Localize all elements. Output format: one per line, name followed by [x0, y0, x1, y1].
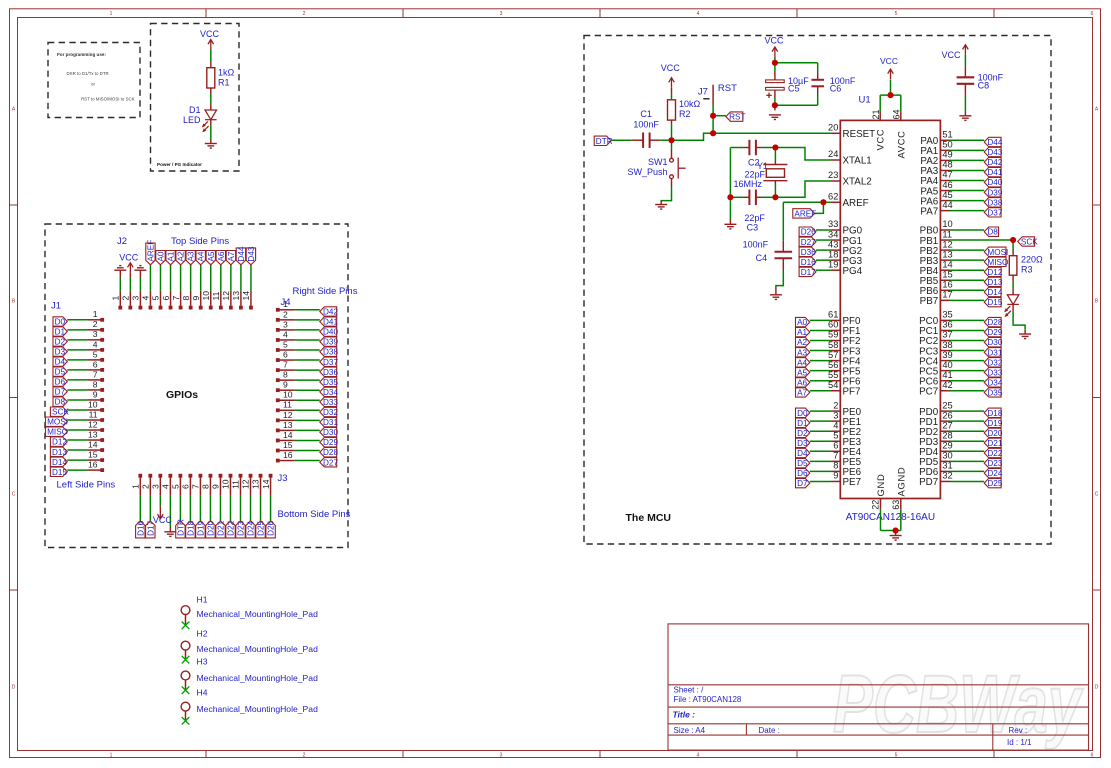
label D3	[53, 347, 67, 356]
svg-text:D39: D39	[323, 338, 338, 347]
wire	[810, 370, 831, 372]
J2 pin 1	[118, 306, 122, 310]
label D4	[796, 448, 810, 457]
J3 pin 4 wire	[169, 496, 171, 527]
svg-text:D4: D4	[797, 449, 808, 458]
VCC R2	[669, 78, 675, 88]
J1 pin 12	[88, 429, 101, 431]
wire	[775, 62, 818, 64]
MCU dashed box	[584, 36, 1051, 545]
svg-text:D26: D26	[267, 520, 276, 535]
svg-text:D5: D5	[797, 459, 808, 468]
U1 pin 39 PC4	[940, 360, 950, 362]
J2 pin 1 wire	[119, 278, 121, 291]
wire	[810, 460, 831, 462]
svg-text:D: D	[12, 685, 16, 691]
svg-text:C5: C5	[788, 84, 800, 94]
J3 pin 7	[199, 474, 203, 478]
label D41	[320, 317, 337, 326]
label D22	[226, 521, 235, 538]
svg-text:D33: D33	[323, 398, 338, 407]
svg-text:D42: D42	[987, 158, 1002, 167]
label D13	[984, 277, 1001, 286]
J1 pin 15 wire	[67, 459, 88, 461]
wire	[895, 531, 897, 536]
svg-text:D32: D32	[987, 358, 1002, 367]
J1 pin 8 wire	[67, 389, 88, 391]
U1 pin 42 PC7	[940, 390, 950, 392]
U1 pin 54 PF7	[831, 390, 841, 392]
svg-text:A1: A1	[797, 328, 807, 337]
label D4	[53, 357, 67, 366]
label D31	[984, 348, 1001, 357]
J4 pin 5	[276, 348, 280, 352]
svg-text:H2: H2	[197, 628, 208, 638]
U1 pin 57 PF4	[831, 360, 841, 362]
label A5	[206, 251, 215, 265]
wire	[880, 510, 882, 531]
svg-text:D36: D36	[801, 248, 816, 257]
U1 pin 2 PE0	[831, 410, 841, 412]
label D18	[186, 521, 195, 538]
resistor R3	[1009, 256, 1017, 276]
J3 pin 14 wire	[270, 496, 272, 521]
J1 pin 8	[88, 389, 101, 391]
wire	[810, 420, 831, 422]
label A0	[156, 251, 165, 265]
svg-text:A6: A6	[217, 251, 226, 261]
J4 pin 14	[276, 439, 280, 443]
J2 pin 14 wire	[250, 265, 252, 291]
label SCK	[1018, 237, 1035, 246]
power indicator box	[151, 24, 240, 172]
label D30	[984, 338, 1001, 347]
wire	[1012, 275, 1014, 281]
wire	[649, 139, 660, 141]
svg-text:D2: D2	[55, 338, 66, 347]
svg-text:7: 7	[93, 369, 98, 379]
J4 pin 8 wire	[295, 379, 320, 381]
svg-text:SW_Push: SW_Push	[627, 167, 667, 177]
svg-text:AREF: AREF	[843, 198, 869, 209]
svg-text:C8: C8	[978, 81, 990, 91]
svg-text:D3: D3	[797, 439, 808, 448]
U1 pin 62 AREF	[831, 201, 841, 203]
J2 pin 7	[179, 306, 183, 310]
svg-text:10: 10	[88, 399, 98, 409]
svg-text:D27: D27	[801, 238, 816, 247]
svg-text:14: 14	[88, 439, 98, 449]
svg-text:7: 7	[283, 360, 288, 370]
J1 pin 3	[88, 339, 101, 341]
svg-text:D25: D25	[987, 479, 1002, 488]
svg-text:8: 8	[283, 370, 288, 380]
label D19	[196, 521, 205, 538]
J4 pin 4	[276, 338, 280, 342]
J1 pin 12 wire	[67, 429, 88, 431]
svg-text:Mechanical_MountingHole_Pad: Mechanical_MountingHole_Pad	[197, 673, 319, 683]
svg-text:A5: A5	[207, 251, 216, 261]
wire	[950, 229, 984, 231]
svg-text:8: 8	[201, 484, 211, 489]
wire	[950, 380, 984, 382]
ground	[655, 205, 667, 210]
GPIO dashed box	[45, 224, 348, 548]
J2 pin 13	[239, 306, 243, 310]
svg-text:23: 23	[828, 170, 838, 180]
U1 pin 16 PB6	[940, 289, 950, 291]
U1 pin 60 PF1	[831, 329, 841, 331]
svg-text:6: 6	[181, 484, 191, 489]
J4 pin 15	[276, 449, 280, 453]
svg-text:24: 24	[828, 149, 838, 159]
label A0	[796, 317, 810, 326]
LED D2	[1004, 295, 1019, 317]
svg-text:4: 4	[161, 484, 171, 489]
label MOSI	[984, 247, 1006, 256]
U1 pin 24 XTAL1	[831, 159, 841, 161]
label MISO	[46, 427, 68, 436]
wire	[950, 239, 1013, 241]
label D5	[53, 367, 67, 376]
wire	[950, 430, 984, 432]
svg-text:D12: D12	[987, 268, 1002, 277]
svg-text:5: 5	[171, 484, 181, 489]
label SCK	[50, 407, 67, 416]
wire	[729, 148, 731, 221]
svg-text:A4: A4	[797, 358, 807, 367]
svg-text:D7: D7	[797, 479, 808, 488]
svg-text:D7: D7	[55, 388, 66, 397]
J4 pin 9	[276, 388, 280, 392]
J4 pin 12 wire	[295, 419, 320, 421]
svg-text:2: 2	[93, 319, 98, 329]
svg-text:D32: D32	[323, 408, 338, 417]
junction	[772, 194, 778, 200]
svg-text:MISO: MISO	[47, 428, 68, 437]
U1 pin 33 PG0	[831, 229, 841, 231]
svg-text:D26: D26	[801, 228, 816, 237]
label D32	[320, 407, 337, 416]
svg-text:D8: D8	[987, 228, 998, 237]
svg-text:PF7: PF7	[843, 386, 861, 397]
svg-text:For programming use:: For programming use:	[57, 52, 106, 57]
U1 pin 56 PF5	[831, 370, 841, 372]
svg-text:GND: GND	[875, 474, 886, 497]
wire	[1012, 304, 1014, 311]
wire	[611, 139, 631, 141]
svg-text:J1: J1	[51, 301, 61, 312]
wire	[729, 220, 731, 224]
J1 pin 9 wire	[67, 399, 88, 401]
svg-text:35: 35	[942, 310, 952, 320]
svg-text:16MHz: 16MHz	[733, 179, 762, 189]
J2 pin 11	[219, 306, 223, 310]
label D25	[256, 521, 265, 538]
svg-text:13: 13	[231, 291, 241, 301]
label A6	[796, 378, 810, 387]
svg-text:4: 4	[697, 752, 700, 758]
label D18	[984, 408, 1001, 417]
svg-text:6: 6	[1091, 11, 1094, 17]
svg-text:XTAL2: XTAL2	[843, 177, 872, 188]
svg-text:MOSI: MOSI	[47, 418, 68, 427]
U1 pin 23 XTAL2	[831, 180, 841, 182]
J4 pin 1	[276, 308, 280, 312]
label D7	[53, 387, 67, 396]
U1 pin 6 PE4	[831, 450, 841, 452]
svg-text:D8: D8	[55, 398, 66, 407]
svg-text:11: 11	[283, 400, 292, 410]
wire	[810, 480, 831, 482]
wire	[950, 410, 984, 412]
J2 pin 8 wire	[190, 265, 192, 291]
wire	[950, 190, 984, 192]
svg-text:10kΩ: 10kΩ	[679, 99, 701, 109]
wire	[950, 159, 984, 161]
svg-text:J3: J3	[278, 473, 288, 484]
J3 pin 13	[259, 474, 263, 478]
label D26	[266, 521, 275, 538]
label D20	[984, 428, 1001, 437]
svg-text:D1: D1	[797, 419, 808, 428]
svg-text:8: 8	[93, 379, 98, 389]
wire	[950, 180, 984, 182]
label MOSI	[46, 417, 68, 426]
U1 pin 3 PE1	[831, 420, 841, 422]
J4 pin 8	[276, 378, 280, 382]
capacitor C4	[775, 252, 793, 258]
U1 pin 5 PE3	[831, 440, 841, 442]
svg-text:10: 10	[283, 390, 293, 400]
svg-text:7: 7	[833, 451, 838, 461]
svg-text:VCC: VCC	[661, 63, 681, 73]
label D39	[320, 337, 337, 346]
svg-text:9: 9	[283, 380, 288, 390]
label D2	[796, 428, 810, 437]
svg-text:D22: D22	[226, 520, 235, 535]
svg-text:D20: D20	[987, 429, 1002, 438]
svg-text:D21: D21	[987, 439, 1002, 448]
svg-text:A7: A7	[227, 251, 236, 261]
svg-text:9: 9	[211, 484, 221, 489]
J4 pin 12	[276, 418, 280, 422]
wire	[816, 269, 831, 271]
svg-text:7: 7	[191, 484, 201, 489]
J4 pin 13 wire	[295, 429, 320, 431]
U1 pin 31 PD6	[940, 470, 950, 472]
U1 pin 38 PC3	[940, 350, 950, 352]
svg-text:VCC: VCC	[941, 50, 961, 60]
svg-text:Rev :: Rev :	[1009, 726, 1028, 735]
svg-text:Mechanical_MountingHole_Pad: Mechanical_MountingHole_Pad	[197, 644, 319, 654]
svg-text:D39: D39	[987, 188, 1002, 197]
label D28	[984, 317, 1001, 326]
J4 pin 10 wire	[295, 399, 320, 401]
J3 pin 9 wire	[219, 496, 221, 521]
label D27	[799, 237, 816, 246]
U1 pin 27 PD2	[940, 430, 950, 432]
svg-text:A0: A0	[157, 251, 166, 261]
wire	[730, 196, 744, 198]
label AREF	[793, 209, 815, 218]
svg-text:1: 1	[111, 296, 121, 301]
J4 pin 4 wire	[295, 339, 320, 341]
label D15	[984, 297, 1001, 306]
J4 pin 3 wire	[295, 329, 320, 331]
crystal Y1	[763, 165, 787, 181]
wire	[810, 390, 831, 392]
svg-text:14: 14	[241, 291, 251, 301]
svg-text:9: 9	[93, 389, 98, 399]
U1 pin 58 PF3	[831, 350, 841, 352]
J1 pin 14 wire	[67, 449, 88, 451]
svg-text:A6: A6	[797, 378, 807, 387]
J1 pin 13	[88, 439, 101, 441]
svg-text:4: 4	[833, 420, 838, 430]
svg-text:Size : A4: Size : A4	[674, 726, 706, 735]
U1 pin 51 PA0	[940, 139, 950, 141]
wire	[950, 329, 984, 331]
svg-text:D31: D31	[323, 418, 338, 427]
svg-text:D40: D40	[323, 328, 338, 337]
svg-text:4: 4	[283, 329, 288, 339]
svg-text:6: 6	[1091, 752, 1094, 758]
svg-text:12: 12	[283, 410, 293, 420]
svg-text:10: 10	[942, 219, 952, 229]
J2 pin 2 wire	[129, 278, 131, 291]
svg-text:AT90CAN128-16AU: AT90CAN128-16AU	[846, 512, 935, 523]
label A3	[796, 348, 810, 357]
svg-text:2: 2	[303, 752, 306, 758]
label DTR	[594, 136, 611, 145]
svg-text:D23: D23	[987, 459, 1002, 468]
wire	[756, 196, 761, 198]
wire	[713, 115, 726, 117]
J3 pin 10	[229, 474, 233, 478]
J4 pin 10	[276, 398, 280, 402]
wire	[817, 86, 819, 94]
J3 pin 1 wire	[139, 496, 141, 521]
U1 pin 44 PA7	[940, 210, 950, 212]
svg-text:D29: D29	[987, 328, 1002, 337]
label D36	[799, 247, 816, 256]
wire	[810, 350, 831, 352]
label D19	[984, 418, 1001, 427]
svg-text:D33: D33	[987, 368, 1002, 377]
svg-text:220Ω: 220Ω	[1021, 255, 1043, 265]
svg-text:8: 8	[833, 461, 838, 471]
svg-text:D3: D3	[55, 348, 66, 357]
wire	[950, 370, 984, 372]
wire	[816, 229, 831, 231]
svg-text:A2: A2	[177, 251, 186, 261]
svg-text:3: 3	[283, 319, 288, 329]
svg-text:MISO: MISO	[987, 258, 1008, 267]
label A4	[196, 251, 205, 265]
svg-text:D4: D4	[55, 358, 66, 367]
label D28	[320, 448, 337, 457]
J1 pin 4	[88, 349, 101, 351]
wire	[950, 210, 984, 212]
svg-text:9: 9	[833, 471, 838, 481]
ground	[205, 144, 217, 149]
U1 pin 25 PD0	[940, 410, 950, 412]
J4 pin 14 wire	[295, 439, 320, 441]
capacitor C3	[749, 190, 756, 206]
svg-text:LED: LED	[183, 115, 201, 125]
svg-text:D44: D44	[987, 138, 1002, 147]
ground	[890, 536, 902, 541]
label D42	[984, 157, 1001, 166]
wire	[810, 360, 831, 362]
label D24	[246, 521, 255, 538]
svg-text:16: 16	[88, 460, 98, 470]
ground	[770, 295, 782, 300]
svg-text:Power / PG Indicator: Power / PG Indicator	[157, 162, 202, 167]
label A3	[186, 251, 195, 265]
J2 pin 2	[128, 306, 132, 310]
J2 pin 5	[159, 306, 163, 310]
label D29	[320, 438, 337, 447]
J2 pin 13 wire	[240, 265, 242, 291]
wire RESET	[713, 132, 831, 134]
J3 pin 7 wire	[199, 496, 201, 521]
label A1	[166, 251, 175, 265]
svg-text:D0: D0	[797, 409, 808, 418]
svg-text:C4: C4	[756, 253, 768, 263]
resistor R2	[668, 100, 676, 120]
svg-text:1: 1	[131, 484, 141, 489]
svg-text:Right Side Pins: Right Side Pins	[293, 286, 358, 297]
svg-text:D15: D15	[52, 468, 67, 477]
label D14	[984, 287, 1001, 296]
wire	[810, 329, 831, 331]
svg-text:A5: A5	[797, 368, 807, 377]
svg-text:A4: A4	[197, 251, 206, 261]
svg-text:RST to MISO/MOSI to SCK: RST to MISO/MOSI to SCK	[81, 97, 135, 102]
U1 pin 9 PE7	[831, 480, 841, 482]
svg-text:or: or	[91, 82, 95, 87]
J1 pin 11 wire	[67, 419, 88, 421]
svg-text:8: 8	[181, 296, 191, 301]
svg-text:7: 7	[171, 296, 181, 301]
label D16	[799, 257, 816, 266]
svg-text:2: 2	[283, 309, 288, 319]
J2 pin 11 wire	[220, 265, 222, 291]
svg-text:5: 5	[93, 349, 98, 359]
J4 pin 2 wire	[295, 319, 320, 321]
svg-text:D24: D24	[987, 469, 1002, 478]
label D6	[53, 377, 67, 386]
label D21	[984, 438, 1001, 447]
label D0	[53, 317, 67, 326]
svg-text:12: 12	[241, 479, 251, 489]
svg-text:D5: D5	[55, 368, 66, 377]
U1 pin 46 PA5	[940, 190, 950, 192]
J2 VCC arrow	[128, 263, 134, 273]
J3 VCC arrow	[159, 506, 161, 509]
U1 pin 13 PB3	[940, 259, 950, 261]
J1 pin 2	[88, 329, 101, 331]
wire	[950, 350, 984, 352]
svg-text:10: 10	[201, 291, 211, 301]
svg-text:D2: D2	[797, 429, 808, 438]
title block	[668, 624, 1089, 750]
svg-text:15: 15	[283, 440, 293, 450]
svg-text:MOSI: MOSI	[987, 248, 1008, 257]
svg-text:D0: D0	[55, 318, 66, 327]
